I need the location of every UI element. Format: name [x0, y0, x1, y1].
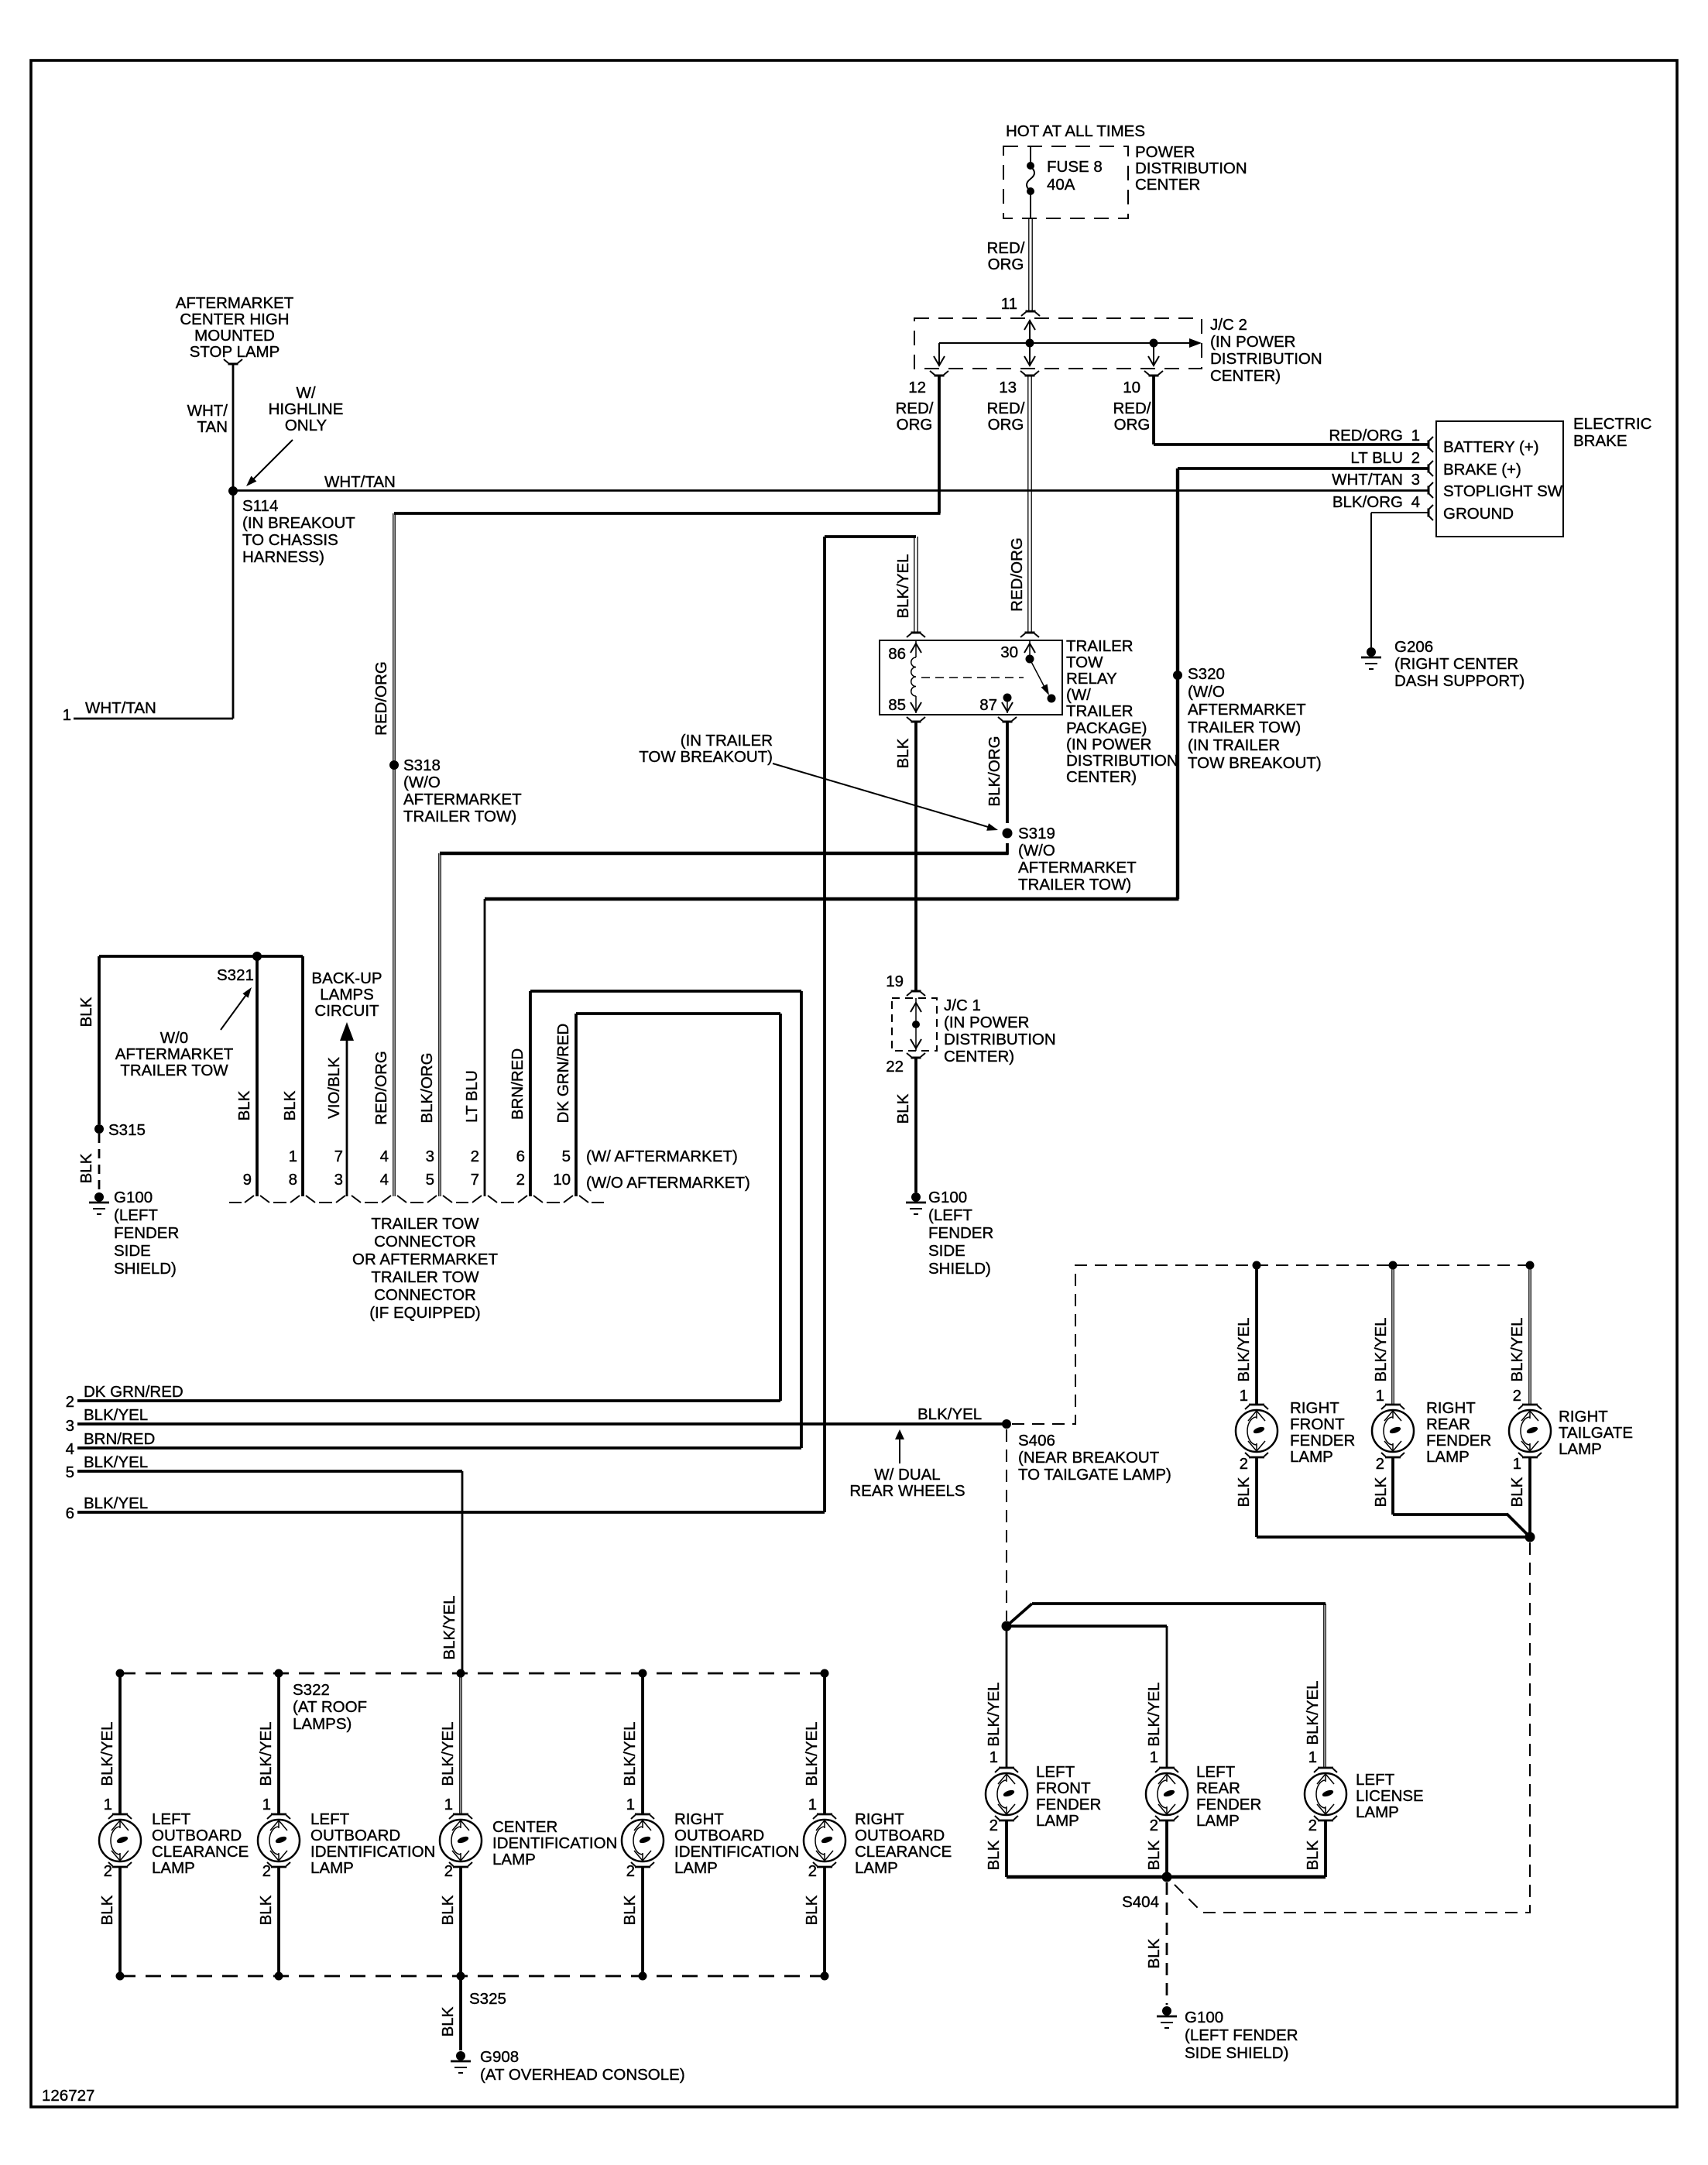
- svg-text:2: 2: [1513, 1387, 1521, 1405]
- svg-text:S406: S406: [1018, 1432, 1055, 1450]
- ground G100 (left fender side shield): [911, 1192, 921, 1202]
- svg-text:ELECTRIC: ELECTRIC: [1573, 415, 1652, 433]
- svg-text:VIO/BLK: VIO/BLK: [325, 1057, 343, 1119]
- svg-text:(LEFT FENDER: (LEFT FENDER: [1185, 2026, 1298, 2044]
- wire BLK J/C1 to G100: [914, 1058, 917, 1192]
- svg-text:BLK/ORG: BLK/ORG: [1332, 493, 1403, 511]
- lamp LEFT LICENSE LAMP: [1305, 1768, 1346, 1820]
- svg-text:TAILGATE: TAILGATE: [1559, 1424, 1633, 1442]
- connector bumps J/C2 exits 12 13 10: [935, 375, 945, 377]
- svg-text:AFTERMARKET: AFTERMARKET: [1018, 859, 1137, 877]
- svg-text:LAMPS: LAMPS: [320, 986, 374, 1004]
- dashed link to S404: [1171, 1542, 1530, 1913]
- svg-text:LICENSE: LICENSE: [1356, 1787, 1424, 1805]
- svg-text:OUTBOARD: OUTBOARD: [674, 1827, 764, 1844]
- node S406: [1002, 1419, 1011, 1429]
- svg-text:DISTRIBUTION: DISTRIBUTION: [944, 1031, 1056, 1048]
- wire WHT/TAN from stop lamp through S114: [232, 364, 235, 719]
- svg-text:(LEFT: (LEFT: [928, 1206, 972, 1224]
- svg-text:G206: G206: [1394, 638, 1433, 656]
- svg-text:LT BLU: LT BLU: [1350, 449, 1403, 467]
- svg-text:CENTER: CENTER: [492, 1818, 557, 1836]
- svg-text:BLK/YEL: BLK/YEL: [621, 1721, 639, 1786]
- svg-text:TRAILER TOW): TRAILER TOW): [403, 808, 516, 825]
- svg-text:BLK/ORG: BLK/ORG: [986, 736, 1003, 806]
- svg-text:(W/O: (W/O: [1018, 842, 1055, 859]
- lamp LEFT REAR FENDER LAMP: [1146, 1768, 1188, 1820]
- svg-text:1: 1: [63, 706, 71, 724]
- svg-text:RED/: RED/: [896, 400, 934, 417]
- svg-text:4: 4: [1411, 493, 1420, 511]
- electric brake pin bumps: [1428, 441, 1430, 449]
- arrow W/0 AFTERMARKET TRAILER TOW to S321: [221, 993, 248, 1030]
- svg-text:STOPLIGHT SW: STOPLIGHT SW: [1443, 482, 1563, 500]
- svg-text:7: 7: [471, 1171, 479, 1189]
- svg-text:S114: S114: [242, 497, 278, 515]
- svg-text:RELAY: RELAY: [1066, 670, 1117, 688]
- svg-text:BLK/YEL: BLK/YEL: [257, 1721, 275, 1786]
- svg-text:13: 13: [999, 379, 1017, 396]
- svg-text:5: 5: [562, 1148, 571, 1165]
- svg-text:7: 7: [334, 1148, 343, 1165]
- svg-text:(IN POWER: (IN POWER: [1066, 736, 1151, 753]
- svg-text:BLK: BLK: [439, 2006, 457, 2036]
- svg-text:SHIELD): SHIELD): [114, 1260, 177, 1278]
- svg-text:BLK/ORG: BLK/ORG: [418, 1052, 436, 1123]
- svg-text:2: 2: [989, 1817, 998, 1834]
- svg-text:DK GRN/RED: DK GRN/RED: [84, 1383, 183, 1401]
- svg-text:BLK/YEL: BLK/YEL: [1145, 1682, 1163, 1746]
- svg-text:BLK/YEL: BLK/YEL: [439, 1721, 457, 1786]
- node S315: [94, 1124, 104, 1134]
- wire BLK/ORG to connector pin 5: [440, 852, 1009, 855]
- node left lamp feed junction: [1002, 1621, 1012, 1631]
- svg-text:BLK: BLK: [894, 738, 912, 768]
- svg-text:TRAILER TOW): TRAILER TOW): [1188, 719, 1301, 736]
- svg-text:TRAILER TOW: TRAILER TOW: [371, 1268, 479, 1286]
- wire BLK right rear fender lamp: [1391, 1458, 1394, 1515]
- svg-text:G100: G100: [1185, 2009, 1223, 2026]
- svg-text:AFTERMARKET: AFTERMARKET: [403, 791, 522, 808]
- svg-text:FENDER: FENDER: [114, 1224, 179, 1242]
- ground G100 (left fender side shield): [1162, 2006, 1171, 2016]
- svg-text:ONLY: ONLY: [285, 417, 328, 434]
- svg-text:5: 5: [66, 1463, 74, 1481]
- svg-text:RED/: RED/: [987, 400, 1025, 417]
- svg-text:LEFT: LEFT: [310, 1810, 350, 1828]
- svg-text:5: 5: [426, 1171, 434, 1189]
- svg-text:ORG: ORG: [988, 416, 1024, 434]
- svg-text:CLEARANCE: CLEARANCE: [855, 1843, 952, 1861]
- svg-text:2: 2: [516, 1171, 525, 1189]
- row 5 riser to roof lamps: [461, 1471, 464, 1673]
- svg-text:HARNESS): HARNESS): [242, 548, 324, 566]
- lamp RIGHT OUTBOARD CLEARANCE LAMP: [804, 1814, 845, 1867]
- svg-text:BLK: BLK: [257, 1895, 275, 1925]
- svg-text:1: 1: [808, 1796, 817, 1813]
- electric brake box: [1436, 421, 1563, 537]
- svg-text:IDENTIFICATION: IDENTIFICATION: [674, 1843, 799, 1861]
- wire BLK/YEL feed from row 6: [825, 535, 916, 538]
- svg-text:1: 1: [1376, 1387, 1384, 1405]
- svg-text:11: 11: [1001, 295, 1017, 313]
- svg-text:BRAKE (+): BRAKE (+): [1443, 461, 1521, 479]
- svg-text:SIDE SHIELD): SIDE SHIELD): [1185, 2044, 1288, 2062]
- wire BLK relay 85 down: [914, 722, 917, 991]
- svg-text:3: 3: [334, 1171, 343, 1189]
- svg-text:12: 12: [908, 379, 926, 396]
- svg-text:1: 1: [626, 1796, 635, 1813]
- svg-text:LAMP: LAMP: [1426, 1448, 1470, 1466]
- svg-text:2: 2: [1411, 449, 1420, 467]
- wire fuse to J/C2 (double): [1028, 218, 1030, 311]
- svg-text:S321: S321: [217, 966, 254, 984]
- svg-text:WHT/TAN: WHT/TAN: [85, 699, 156, 717]
- svg-text:SIDE: SIDE: [114, 1242, 151, 1260]
- svg-text:(LEFT: (LEFT: [114, 1206, 158, 1224]
- svg-text:BLK/YEL: BLK/YEL: [441, 1595, 458, 1659]
- ground G908: [456, 2051, 465, 2060]
- node S404: [1162, 1872, 1172, 1882]
- svg-text:G908: G908: [480, 2048, 519, 2066]
- svg-text:S322: S322: [293, 1681, 330, 1699]
- svg-text:6: 6: [66, 1505, 74, 1522]
- node right lamp ground junction: [1525, 1532, 1535, 1542]
- svg-text:CONNECTOR: CONNECTOR: [374, 1286, 476, 1304]
- svg-text:WHT/TAN: WHT/TAN: [324, 473, 396, 491]
- svg-text:TRAILER TOW: TRAILER TOW: [120, 1062, 228, 1079]
- svg-text:BLK: BLK: [77, 1153, 95, 1183]
- svg-text:BLK: BLK: [1145, 1840, 1163, 1870]
- svg-text:19: 19: [886, 973, 904, 990]
- svg-text:(W/O AFTERMARKET): (W/O AFTERMARKET): [586, 1174, 750, 1192]
- node S320 riser: [1176, 468, 1179, 899]
- relay coil: [915, 640, 917, 657]
- svg-text:FUSE 8: FUSE 8: [1047, 158, 1103, 176]
- svg-text:2: 2: [66, 1393, 74, 1411]
- svg-text:10: 10: [553, 1171, 571, 1189]
- svg-text:IDENTIFICATION: IDENTIFICATION: [310, 1843, 435, 1861]
- svg-text:FRONT: FRONT: [1036, 1779, 1091, 1797]
- relay pin 87 contact: [1003, 694, 1012, 702]
- wire BLK/YEL to right rear fender lamp (double): [1391, 1265, 1393, 1404]
- wire BLK S325 to G908: [459, 1976, 462, 2050]
- svg-text:WHT/TAN: WHT/TAN: [1332, 471, 1403, 489]
- wires BLK roof lamps to S325 bus: [118, 1867, 122, 1976]
- roof lamps bottom bus (dashed): [120, 1975, 825, 1978]
- wire BLK/YEL to left license lamp (double): [1323, 1604, 1325, 1768]
- svg-text:3: 3: [66, 1417, 74, 1435]
- svg-text:85: 85: [888, 696, 906, 714]
- wire BLK right tailgate lamp: [1528, 1458, 1531, 1534]
- wire 12 RED/ORG down then left: [938, 376, 941, 513]
- svg-text:1: 1: [1411, 427, 1420, 444]
- svg-text:BLK: BLK: [98, 1895, 116, 1925]
- wire DK GRN/RED pin 5/10: [574, 1014, 578, 1196]
- svg-text:BLK/YEL: BLK/YEL: [84, 1453, 148, 1471]
- svg-text:9: 9: [243, 1171, 252, 1189]
- wire LT BLU pin 2/7: [484, 899, 486, 1196]
- wire BLK left drop: [98, 956, 101, 1124]
- wire BLK dashed to G100: [98, 1134, 101, 1191]
- svg-text:(NEAR BREAKOUT: (NEAR BREAKOUT: [1018, 1449, 1160, 1467]
- svg-text:BLK: BLK: [281, 1090, 299, 1120]
- svg-text:W/ DUAL: W/ DUAL: [874, 1466, 940, 1484]
- svg-text:LEFT: LEFT: [1356, 1771, 1395, 1789]
- svg-text:(IN POWER: (IN POWER: [944, 1014, 1029, 1031]
- svg-text:LAMP: LAMP: [1290, 1448, 1333, 1466]
- svg-text:CENTER): CENTER): [1066, 768, 1137, 786]
- svg-text:1: 1: [1308, 1748, 1317, 1766]
- svg-text:RIGHT: RIGHT: [674, 1810, 724, 1828]
- svg-text:CENTER HIGH: CENTER HIGH: [180, 311, 289, 328]
- svg-text:TRAILER TOW): TRAILER TOW): [1018, 876, 1131, 894]
- node S114: [228, 486, 238, 496]
- svg-text:(AT ROOF: (AT ROOF: [293, 1698, 367, 1716]
- svg-text:AFTERMARKET: AFTERMARKET: [1188, 701, 1306, 719]
- svg-text:CONNECTOR: CONNECTOR: [374, 1233, 476, 1251]
- svg-text:(IN BREAKOUT: (IN BREAKOUT: [242, 514, 355, 532]
- svg-text:LAMP: LAMP: [152, 1859, 195, 1877]
- svg-text:2: 2: [1308, 1817, 1317, 1834]
- trailer tow relay box: [880, 640, 1062, 715]
- svg-text:FENDER: FENDER: [928, 1224, 993, 1242]
- row 6 BLK/YEL: [77, 1511, 825, 1514]
- svg-text:BLK/YEL: BLK/YEL: [985, 1682, 1003, 1746]
- svg-text:REAR WHEELS: REAR WHEELS: [849, 1482, 965, 1500]
- svg-text:4: 4: [380, 1148, 389, 1165]
- svg-text:TRAILER: TRAILER: [1066, 637, 1134, 655]
- svg-text:W/: W/: [296, 384, 315, 402]
- svg-text:BLK/YEL: BLK/YEL: [84, 1494, 148, 1512]
- svg-text:BLK: BLK: [1508, 1477, 1526, 1507]
- svg-text:CENTER): CENTER): [944, 1048, 1014, 1065]
- svg-text:LAMP: LAMP: [855, 1859, 898, 1877]
- connector bump stop lamp: [228, 363, 238, 365]
- svg-text:6: 6: [516, 1148, 525, 1165]
- svg-text:BLK: BLK: [894, 1093, 912, 1124]
- svg-text:1: 1: [289, 1148, 297, 1165]
- svg-text:BLK/YEL: BLK/YEL: [1372, 1317, 1390, 1381]
- svg-text:G100: G100: [114, 1189, 153, 1206]
- svg-text:RED/ORG: RED/ORG: [1329, 427, 1403, 444]
- svg-text:LAMP: LAMP: [1196, 1812, 1240, 1830]
- svg-text:OUTBOARD: OUTBOARD: [152, 1827, 242, 1844]
- svg-text:1: 1: [1513, 1455, 1521, 1473]
- svg-text:W/0: W/0: [160, 1029, 188, 1047]
- svg-text:WHT/: WHT/: [187, 402, 228, 420]
- svg-text:DK GRN/RED: DK GRN/RED: [554, 1024, 572, 1124]
- node S321 bus: [99, 955, 303, 958]
- svg-text:BLK: BLK: [1145, 1938, 1163, 1968]
- svg-text:BLK: BLK: [803, 1895, 821, 1925]
- svg-text:S320: S320: [1188, 665, 1225, 683]
- svg-text:10: 10: [1123, 379, 1140, 396]
- svg-text:BLK/YEL: BLK/YEL: [98, 1721, 116, 1786]
- fuse F8 element: [1030, 146, 1031, 166]
- svg-text:G100: G100: [928, 1189, 967, 1206]
- svg-text:LAMP: LAMP: [310, 1859, 354, 1877]
- arrow to S114 wire: [249, 440, 293, 483]
- svg-text:AFTERMARKET: AFTERMARKET: [115, 1045, 234, 1063]
- svg-text:4: 4: [380, 1171, 389, 1189]
- svg-text:AFTERMARKET: AFTERMARKET: [176, 294, 294, 312]
- svg-text:S318: S318: [403, 757, 441, 774]
- svg-text:4: 4: [66, 1440, 74, 1458]
- svg-text:RIGHT: RIGHT: [1559, 1408, 1608, 1426]
- row 5 BLK/YEL: [77, 1470, 462, 1473]
- svg-text:8: 8: [289, 1171, 297, 1189]
- svg-text:LEFT: LEFT: [1036, 1763, 1075, 1781]
- svg-text:(W/ AFTERMARKET): (W/ AFTERMARKET): [586, 1148, 738, 1165]
- wire BLK right front fender lamp: [1255, 1458, 1258, 1537]
- svg-text:LAMPS): LAMPS): [293, 1715, 352, 1733]
- relay pin 85 bump: [911, 721, 921, 723]
- svg-text:(AT OVERHEAD CONSOLE): (AT OVERHEAD CONSOLE): [480, 2066, 685, 2084]
- svg-text:TRAILER: TRAILER: [1066, 702, 1134, 720]
- svg-text:3: 3: [426, 1148, 434, 1165]
- svg-text:BLK: BLK: [235, 1090, 253, 1120]
- svg-text:ORG: ORG: [897, 416, 933, 434]
- svg-text:22: 22: [886, 1058, 904, 1076]
- svg-text:TO CHASSIS: TO CHASSIS: [242, 531, 338, 549]
- svg-text:(IN POWER: (IN POWER: [1210, 333, 1295, 351]
- svg-text:BRAKE: BRAKE: [1573, 432, 1627, 450]
- ground G206: [1367, 647, 1376, 657]
- svg-text:CENTER: CENTER: [1135, 176, 1200, 194]
- svg-text:(W/O: (W/O: [1188, 683, 1225, 701]
- svg-text:ORG: ORG: [988, 256, 1024, 273]
- svg-text:BLK: BLK: [1304, 1840, 1322, 1870]
- lamp LEFT FRONT FENDER LAMP: [986, 1768, 1027, 1820]
- svg-text:OR AFTERMARKET: OR AFTERMARKET: [352, 1251, 498, 1268]
- svg-text:J/C 1: J/C 1: [944, 997, 981, 1014]
- wire BLK/YEL to right front fender lamp: [1255, 1265, 1258, 1404]
- svg-text:BACK-UP: BACK-UP: [311, 969, 382, 987]
- row 2 DK GRN/RED: [77, 1399, 780, 1402]
- svg-text:TOW BREAKOUT): TOW BREAKOUT): [1188, 754, 1322, 772]
- svg-text:RED/: RED/: [987, 239, 1025, 257]
- right lamp bus nodes: [1253, 1261, 1261, 1270]
- wire LT BLU pin2 to S320 riser: [1178, 467, 1428, 470]
- svg-text:S315: S315: [108, 1121, 146, 1139]
- wire BLK/YEL (double) into pin 86: [914, 537, 915, 633]
- svg-text:1: 1: [989, 1748, 998, 1766]
- wire WHT/TAN main run to electric brake pin 3: [233, 489, 1428, 492]
- svg-text:TRAILER TOW: TRAILER TOW: [371, 1215, 479, 1233]
- wire VIO/BLK with up arrow: [340, 1022, 354, 1041]
- svg-text:LEFT: LEFT: [152, 1810, 191, 1828]
- svg-text:BLK/YEL: BLK/YEL: [894, 554, 912, 618]
- svg-text:LAMP: LAMP: [1559, 1440, 1602, 1458]
- node S319: [1003, 829, 1013, 839]
- svg-text:BLK/YEL: BLK/YEL: [1508, 1317, 1526, 1381]
- svg-text:(W/: (W/: [1066, 686, 1091, 704]
- svg-text:BLK/YEL: BLK/YEL: [1304, 1680, 1322, 1745]
- svg-text:J/C 2: J/C 2: [1210, 316, 1247, 334]
- wire BLK/YEL to right tailgate lamp (double): [1528, 1265, 1530, 1404]
- svg-text:TOW: TOW: [1066, 654, 1103, 671]
- junction connector J/C1 box (dashed): [892, 998, 937, 1051]
- svg-text:LEFT: LEFT: [1196, 1763, 1236, 1781]
- lamp RIGHT OUTBOARD IDENTIFICATION LAMP: [622, 1814, 664, 1867]
- svg-text:BRN/RED: BRN/RED: [509, 1048, 526, 1120]
- svg-text:1: 1: [104, 1796, 112, 1813]
- svg-text:2: 2: [471, 1148, 479, 1165]
- wire BLK/ORG pin4 to G206: [1371, 512, 1428, 513]
- svg-text:RED/ORG: RED/ORG: [372, 1051, 390, 1125]
- svg-text:LAMP: LAMP: [674, 1859, 718, 1877]
- svg-text:2: 2: [1150, 1817, 1158, 1834]
- svg-text:1: 1: [1150, 1748, 1158, 1766]
- svg-text:BLK: BLK: [77, 997, 95, 1027]
- svg-text:CENTER): CENTER): [1210, 367, 1281, 385]
- svg-text:BLK: BLK: [1372, 1477, 1390, 1507]
- svg-text:RED/: RED/: [1113, 400, 1151, 417]
- svg-text:STOP LAMP: STOP LAMP: [190, 343, 280, 361]
- lamp RIGHT TAILGATE LAMP: [1509, 1405, 1551, 1457]
- dashed link S406 to right lamp bus: [1006, 1429, 1007, 1621]
- row 3 BLK/YEL: [77, 1422, 1007, 1426]
- svg-text:30: 30: [1000, 643, 1018, 661]
- svg-text:BLK/YEL: BLK/YEL: [84, 1406, 148, 1424]
- svg-text:SIDE: SIDE: [928, 1242, 965, 1260]
- trailer tow connector row: [229, 1196, 604, 1203]
- svg-text:1: 1: [262, 1796, 271, 1813]
- wire BLK/ORG relay 87 down: [1006, 722, 1009, 823]
- wires BLK left lamps to S404 bus: [1005, 1820, 1008, 1877]
- svg-text:RIGHT: RIGHT: [1290, 1399, 1339, 1417]
- svg-text:LT BLU: LT BLU: [463, 1070, 481, 1123]
- svg-text:40A: 40A: [1047, 176, 1075, 194]
- svg-text:2: 2: [1240, 1455, 1248, 1473]
- svg-text:(IF EQUIPPED): (IF EQUIPPED): [369, 1304, 481, 1322]
- wires BLK/YEL to roof lamps: [118, 1673, 122, 1814]
- svg-text:DASH SUPPORT): DASH SUPPORT): [1394, 672, 1525, 690]
- svg-text:FENDER: FENDER: [1036, 1796, 1101, 1813]
- svg-text:BLK/YEL: BLK/YEL: [803, 1721, 821, 1786]
- svg-text:RIGHT: RIGHT: [1426, 1399, 1476, 1417]
- svg-text:87: 87: [979, 696, 997, 714]
- svg-text:1: 1: [444, 1796, 453, 1813]
- svg-text:OUTBOARD: OUTBOARD: [310, 1827, 400, 1844]
- svg-text:OUTBOARD: OUTBOARD: [855, 1827, 945, 1844]
- svg-text:DISTRIBUTION: DISTRIBUTION: [1210, 350, 1322, 368]
- ground G100 (left): [94, 1192, 104, 1202]
- svg-text:CLEARANCE: CLEARANCE: [152, 1843, 249, 1861]
- svg-text:FENDER: FENDER: [1196, 1796, 1261, 1813]
- lamp LEFT OUTBOARD IDENTIFICATION LAMP: [258, 1814, 300, 1867]
- wire pin 9: [256, 956, 259, 1196]
- svg-text:RED/ORG: RED/ORG: [372, 661, 390, 736]
- svg-text:PACKAGE): PACKAGE): [1066, 719, 1147, 737]
- svg-text:BLK: BLK: [1235, 1477, 1253, 1507]
- svg-text:HIGHLINE: HIGHLINE: [269, 400, 344, 418]
- svg-text:RED/ORG: RED/ORG: [1008, 537, 1026, 612]
- svg-text:(IN TRAILER: (IN TRAILER: [681, 732, 773, 750]
- lamp CENTER IDENTIFICATION LAMP: [440, 1814, 482, 1867]
- wire BRN/RED pin 6/2: [529, 991, 532, 1196]
- svg-text:BRN/RED: BRN/RED: [84, 1430, 155, 1448]
- node S318: [389, 760, 399, 770]
- svg-text:S325: S325: [469, 1990, 506, 2008]
- lamp RIGHT REAR FENDER LAMP: [1372, 1405, 1414, 1457]
- lamp LEFT OUTBOARD CLEARANCE LAMP: [99, 1814, 141, 1867]
- svg-text:RIGHT: RIGHT: [855, 1810, 904, 1828]
- svg-text:BLK: BLK: [439, 1895, 457, 1925]
- relay pin 30 bump and switch: [1025, 632, 1035, 634]
- svg-text:GROUND: GROUND: [1443, 505, 1514, 523]
